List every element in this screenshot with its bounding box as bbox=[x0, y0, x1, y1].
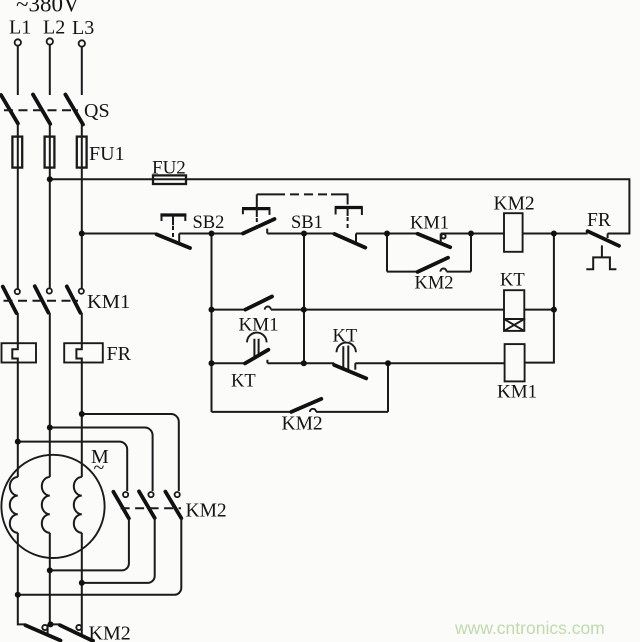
svg-text:KM1: KM1 bbox=[410, 214, 449, 234]
svg-text:L3: L3 bbox=[72, 17, 94, 39]
svg-text:FU1: FU1 bbox=[89, 143, 125, 165]
svg-text:KM2: KM2 bbox=[282, 414, 323, 435]
svg-text:KM2: KM2 bbox=[494, 194, 535, 215]
svg-text:KT: KT bbox=[231, 372, 256, 392]
svg-text:FU2: FU2 bbox=[152, 158, 186, 179]
svg-text:~380V: ~380V bbox=[16, 0, 80, 17]
svg-text:L1: L1 bbox=[9, 17, 31, 39]
svg-text:L2: L2 bbox=[43, 17, 65, 39]
svg-text:FR: FR bbox=[107, 343, 132, 365]
svg-text:SB2: SB2 bbox=[193, 213, 225, 233]
svg-text:SB1: SB1 bbox=[291, 213, 323, 233]
svg-text:KM2: KM2 bbox=[415, 274, 454, 294]
svg-text:www.cntronics.com: www.cntronics.com bbox=[454, 618, 605, 638]
svg-text:FR: FR bbox=[587, 210, 611, 231]
svg-text:KT: KT bbox=[333, 327, 358, 347]
svg-text:KM2: KM2 bbox=[89, 623, 131, 642]
svg-text:KT: KT bbox=[500, 271, 525, 291]
svg-text:KM2: KM2 bbox=[186, 501, 227, 522]
svg-text:KM1: KM1 bbox=[497, 382, 537, 403]
svg-text:~: ~ bbox=[94, 457, 105, 479]
svg-text:KM1: KM1 bbox=[87, 291, 130, 313]
svg-text:QS: QS bbox=[84, 100, 110, 122]
